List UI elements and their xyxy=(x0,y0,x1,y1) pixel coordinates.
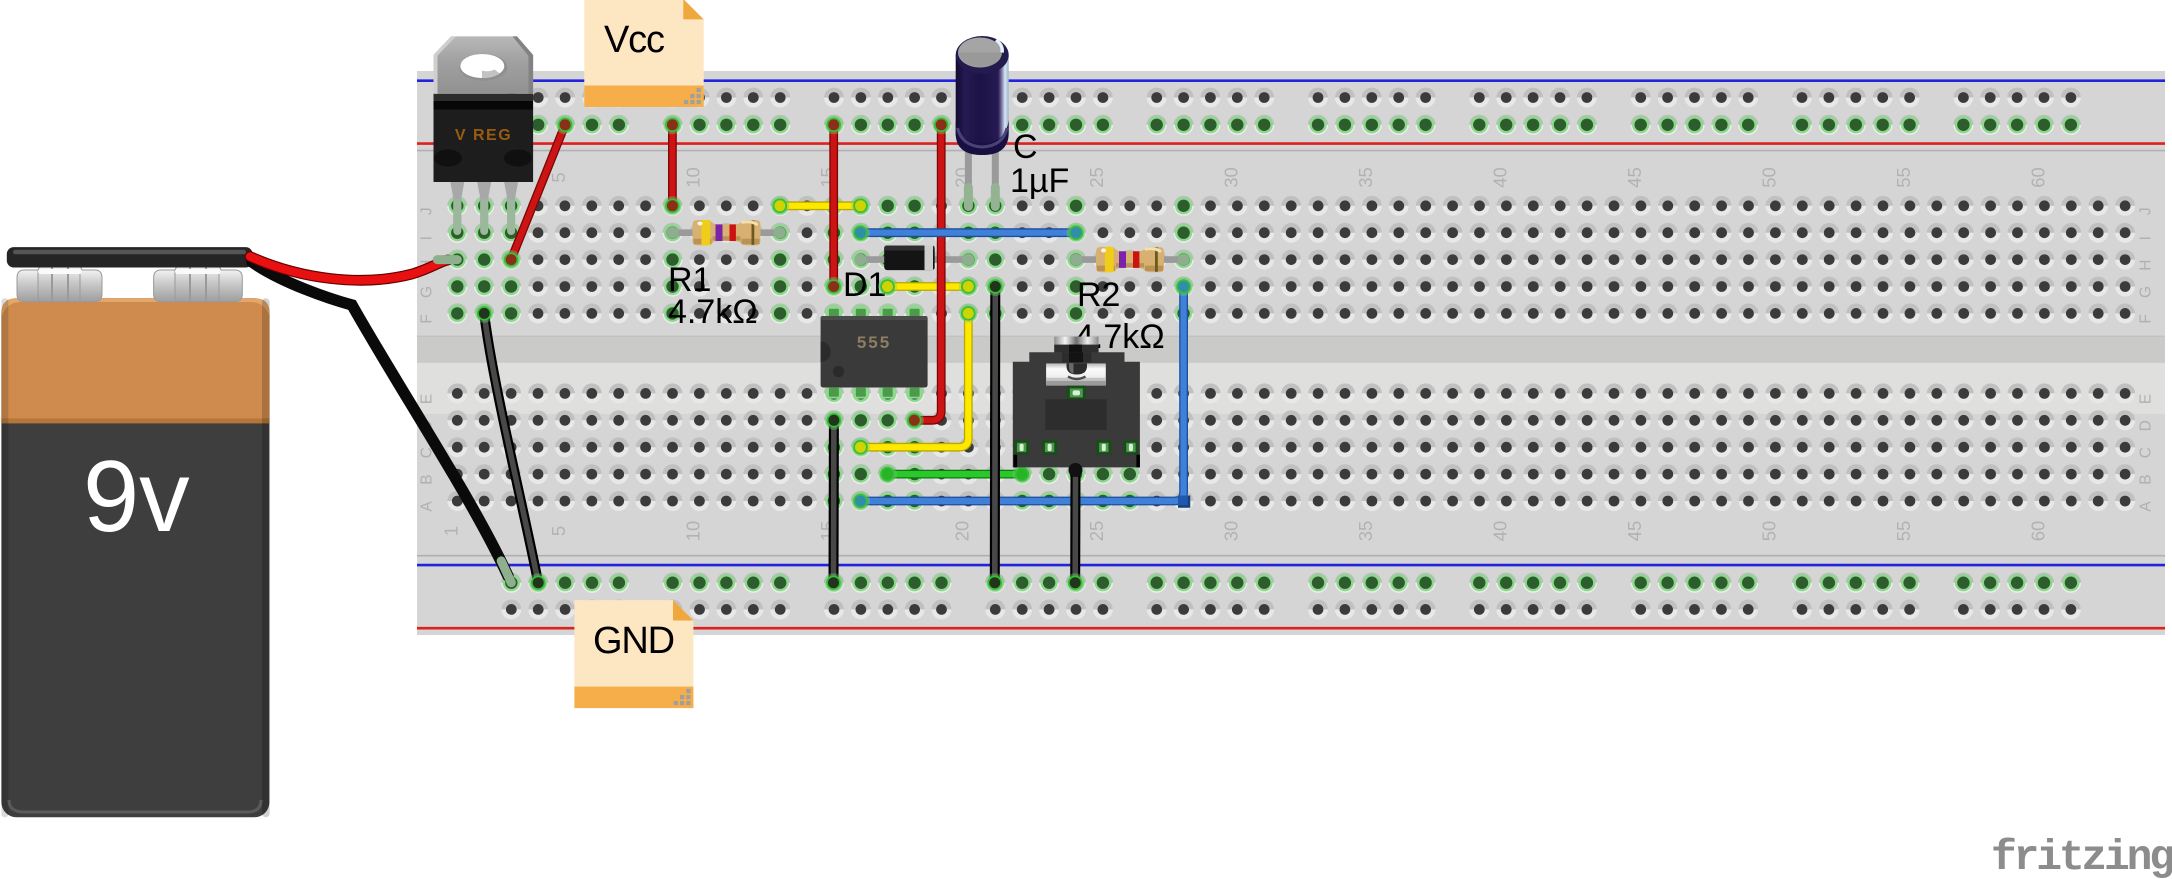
svg-text:4.7kΩ: 4.7kΩ xyxy=(668,293,758,331)
svg-text:60: 60 xyxy=(2027,521,2048,542)
svg-text:J: J xyxy=(2138,207,2155,215)
svg-text:25: 25 xyxy=(1086,167,1107,188)
svg-text:V REG: V REG xyxy=(455,127,512,144)
svg-text:55: 55 xyxy=(1893,521,1914,542)
svg-text:B: B xyxy=(419,474,436,484)
svg-text:5: 5 xyxy=(548,172,569,182)
svg-text:A: A xyxy=(2138,501,2155,512)
svg-text:25: 25 xyxy=(1086,521,1107,542)
svg-text:A: A xyxy=(419,501,436,512)
svg-text:1µF: 1µF xyxy=(1010,162,1069,200)
svg-text:30: 30 xyxy=(1220,521,1241,542)
svg-text:55: 55 xyxy=(1893,167,1914,188)
svg-text:F: F xyxy=(419,314,436,323)
svg-text:50: 50 xyxy=(1758,167,1779,188)
svg-text:D: D xyxy=(2138,420,2155,431)
svg-text:G: G xyxy=(419,286,436,298)
svg-text:40: 40 xyxy=(1489,521,1510,542)
svg-text:E: E xyxy=(419,394,436,404)
svg-text:B: B xyxy=(2138,474,2155,484)
svg-text:45: 45 xyxy=(1624,167,1645,188)
svg-text:C: C xyxy=(2138,447,2155,458)
svg-text:40: 40 xyxy=(1489,167,1510,188)
svg-text:F: F xyxy=(2138,314,2155,323)
svg-text:I: I xyxy=(419,236,436,240)
svg-text:60: 60 xyxy=(2027,167,2048,188)
svg-text:GND: GND xyxy=(593,620,674,662)
svg-text:9v: 9v xyxy=(83,441,190,553)
svg-text:10: 10 xyxy=(682,521,703,542)
svg-text:Vcc: Vcc xyxy=(604,19,664,61)
svg-text:20: 20 xyxy=(951,521,972,542)
svg-text:50: 50 xyxy=(1758,521,1779,542)
svg-text:10: 10 xyxy=(682,167,703,188)
svg-text:J: J xyxy=(419,207,436,215)
svg-text:E: E xyxy=(2138,394,2155,404)
svg-text:35: 35 xyxy=(1355,521,1376,542)
svg-text:45: 45 xyxy=(1624,521,1645,542)
svg-text:1: 1 xyxy=(440,526,461,536)
svg-text:5: 5 xyxy=(548,526,569,536)
svg-text:fritzing: fritzing xyxy=(1991,833,2172,879)
svg-text:35: 35 xyxy=(1355,167,1376,188)
svg-text:R2: R2 xyxy=(1077,276,1120,314)
svg-text:G: G xyxy=(2138,286,2155,298)
svg-text:30: 30 xyxy=(1220,167,1241,188)
svg-text:I: I xyxy=(2138,236,2155,240)
svg-text:555: 555 xyxy=(857,333,891,352)
svg-text:H: H xyxy=(2138,259,2155,270)
svg-text:C: C xyxy=(1013,128,1038,166)
